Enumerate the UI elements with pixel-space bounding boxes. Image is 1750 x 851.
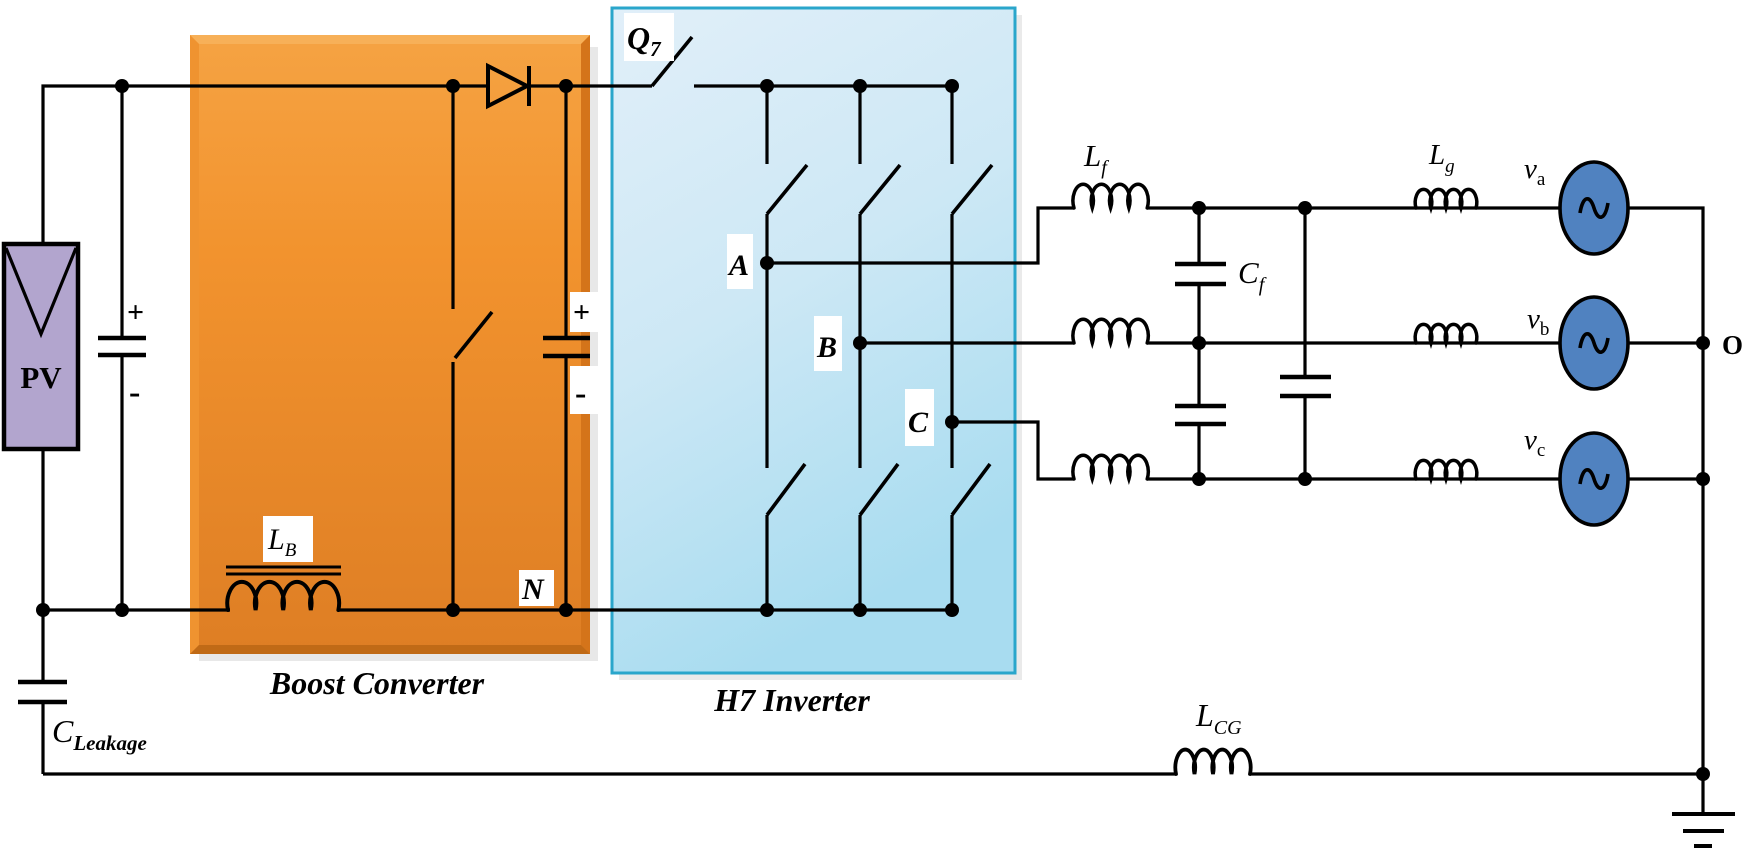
junction node 952,86 — [945, 79, 959, 93]
svg-text:+: + — [127, 296, 144, 329]
wire phase B ellipse to bus — [1628, 341, 1703, 344]
wire phase A to sources — [1147, 206, 1561, 209]
label Q7 — [624, 13, 674, 61]
capacitor C_f A-B — [1175, 208, 1226, 343]
inductor L_f phase B — [1073, 319, 1148, 343]
wire phase C ellipse to bus — [1628, 477, 1703, 480]
junction node 860,86 — [853, 79, 867, 93]
svg-text:CLeakage: CLeakage — [52, 713, 147, 755]
svg-text:N: N — [521, 573, 545, 606]
junction node 453,610 — [446, 603, 460, 617]
capacitor Cdc input — [98, 86, 146, 610]
svg-text:-: - — [129, 374, 140, 411]
junction node 1305,208 — [1298, 201, 1312, 215]
svg-text:Lg: Lg — [1428, 139, 1455, 177]
capacitor C_Leakage — [18, 610, 67, 774]
svg-text:vb: vb — [1527, 303, 1549, 340]
junction node 860,343 — [853, 336, 867, 350]
capacitor C_f second branch — [1280, 208, 1331, 479]
svg-text:O: O — [1722, 330, 1743, 360]
switch S boost — [453, 86, 492, 610]
junction node 1199,208 — [1192, 201, 1206, 215]
svg-text:LCG: LCG — [1195, 697, 1242, 739]
svg-text:A: A — [727, 249, 749, 282]
wire phase B — [860, 341, 1074, 344]
PV module — [4, 244, 78, 449]
junction node 122,610 — [115, 603, 129, 617]
junction node 566,86 — [559, 79, 573, 93]
inductor L_f phase C — [1073, 455, 1148, 479]
right bus to node O and ground — [1628, 208, 1703, 774]
inverter leg 2 lower switch — [860, 343, 898, 610]
junction node 952,610 — [945, 603, 959, 617]
svg-text:B: B — [816, 331, 837, 364]
wire PV bottom — [41, 449, 44, 610]
inductor L_g phase B — [1415, 324, 1477, 343]
svg-text:va: va — [1524, 153, 1546, 190]
label L_B — [263, 516, 313, 562]
inverter leg 3 upper switch — [952, 86, 992, 422]
wire phase A jog — [767, 208, 1074, 263]
inverter leg 1 upper switch — [767, 86, 807, 263]
junction node 767,86 — [760, 79, 774, 93]
junction node 767,263 — [760, 256, 774, 270]
junction node 1199,479 — [1192, 472, 1206, 486]
inductor L_g phase A — [1415, 189, 1477, 208]
junction node 952,422 — [945, 415, 959, 429]
capacitor C_f B-C — [1175, 343, 1226, 479]
svg-text:Cf: Cf — [1238, 255, 1267, 296]
wire Q7 to inverter top bus — [694, 84, 952, 87]
junction node 122,86 — [115, 79, 129, 93]
svg-text:vc: vc — [1524, 424, 1545, 461]
junction node 1199,343 — [1192, 336, 1206, 350]
ground return wire right — [1250, 772, 1703, 775]
node A label — [727, 234, 753, 289]
L_B core bars — [226, 566, 341, 569]
node C label — [905, 389, 934, 446]
ac source v_b — [1560, 297, 1628, 389]
inductor L_CG — [1175, 750, 1250, 774]
svg-text:C: C — [908, 406, 929, 439]
svg-text:H7 Inverter: H7 Inverter — [713, 682, 870, 718]
ac source v_c — [1560, 433, 1628, 525]
inverter leg 2 upper switch — [860, 86, 900, 343]
node N label — [519, 570, 554, 606]
H7 inverter box — [612, 8, 1015, 673]
ground — [1672, 774, 1735, 846]
wire phase C jog — [952, 422, 1074, 479]
inductor L_B — [227, 582, 339, 610]
capacitor C boost output — [543, 86, 598, 610]
boost converter box shadow — [199, 47, 598, 661]
svg-text:Lf: Lf — [1083, 138, 1109, 179]
inverter leg 1 lower switch — [767, 263, 805, 610]
junction node 1305,479 — [1298, 472, 1312, 486]
ac source v_a — [1560, 162, 1628, 254]
junction node 453,86 — [446, 79, 460, 93]
junction node 767,610 — [760, 603, 774, 617]
diode D boost — [488, 66, 529, 106]
node O — [1696, 336, 1710, 350]
svg-text:+: + — [573, 296, 590, 329]
svg-text:-: - — [575, 375, 586, 412]
wire phase C to sources — [1147, 477, 1561, 480]
inductor L_g phase C — [1415, 460, 1477, 479]
wire phase B to sources — [1147, 341, 1561, 344]
wire diode cathode to Q7 pivot — [529, 84, 652, 87]
inverter leg 3 lower switch — [952, 422, 990, 610]
bottom bus N segment — [338, 608, 952, 611]
junction node 860,610 — [853, 603, 867, 617]
H7 inverter box shadow — [619, 15, 1022, 680]
ground return wire left — [43, 772, 1176, 775]
junction node 1703,774 — [1696, 767, 1710, 781]
junction node 43,610 — [36, 603, 50, 617]
wire PV top to top bus — [43, 86, 488, 244]
junction node 566,610 — [559, 603, 573, 617]
switch Q7 — [652, 37, 692, 86]
node B label — [814, 316, 842, 371]
inductor L_f phase A — [1073, 184, 1148, 208]
bottom bus left segment — [43, 608, 230, 611]
junction node 1703,479 — [1696, 472, 1710, 486]
svg-text:Boost Converter: Boost Converter — [269, 665, 485, 701]
boost converter box — [190, 35, 590, 654]
svg-text:PV: PV — [20, 360, 62, 395]
